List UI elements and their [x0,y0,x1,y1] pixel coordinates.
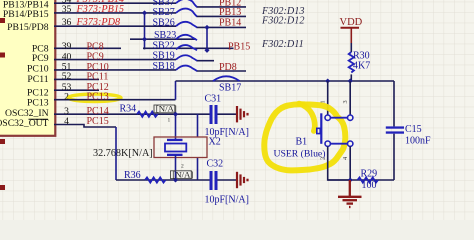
button contact bar [320,113,322,144]
wire R36 row / C32 [116,179,210,181]
parameter box [N/A] for R34 [154,105,175,113]
svg-text:PB14: PB14 [219,18,241,29]
solder bridge SB22 arc [176,45,197,50]
svg-text:C32: C32 [207,158,224,169]
vertical wire PB14 row down to PB15 row [206,27,208,50]
yellow highlight ellipse around PC13 [68,94,121,101]
ground (rotated) at C32 [237,172,248,188]
wire pin40 row PC9 / SB19 [54,59,176,61]
svg-text:USER (Blue): USER (Blue) [274,148,326,159]
bottom rail wire [328,179,394,181]
svg-text:OSC32_OUT: OSC32_OUT [0,118,49,129]
solder bridge SB23 arc [176,35,197,40]
wire pin2 row PC13 [54,99,176,101]
solder bridge SB18 arc [176,66,197,71]
vertical wire PC15 down to R36 row [115,127,117,180]
svg-text:R36: R36 [124,170,141,181]
capacitor C15 stem top [393,81,395,126]
svg-text:F373:PB15: F373:PB15 [76,4,125,15]
svg-text:35: 35 [62,4,72,15]
crystal X2 body [165,144,186,152]
wire row A right (SB top, PB12) [197,6,247,8]
wire pin34 row (left) [54,2,176,4]
crystal case lead top [197,114,199,137]
junction button right leg / R30 [348,78,353,83]
yellow highlight blob around B1 [264,104,345,170]
wire row B right (SB27, PB13) [197,15,247,17]
svg-text:4: 4 [64,116,69,127]
wire pin39 row PC8 [54,47,121,49]
svg-text:F373:PD8: F373:PD8 [76,17,121,28]
button bottom bridge wire [330,143,347,145]
yellow marker overlap tail [299,104,315,132]
svg-text:B1: B1 [296,136,308,147]
wire pin36 row C (straight to SB26, PB14) [54,25,176,27]
capacitor C31 plates [210,105,213,124]
svg-text:SB26: SB26 [153,18,175,29]
button pin circle bottom-right [348,141,353,146]
crystal X2 top lead [175,114,177,139]
svg-text:PC13: PC13 [27,98,49,109]
svg-text:4K7: 4K7 [353,61,370,72]
svg-text:52: 52 [62,71,72,82]
svg-text:PB15: PB15 [228,41,250,52]
capacitor C15 stem bottom [393,134,395,180]
svg-text:32.768K[N/A]: 32.768K[N/A] [93,148,153,159]
wire VDD to R30 [350,43,352,52]
wire button right leg bottom [349,146,351,180]
svg-text:PB14/PB15: PB14/PB15 [3,9,49,20]
vertical wire PC13 up to SB17 row [175,81,177,100]
svg-text:PC9: PC9 [32,53,49,64]
svg-text:SB27: SB27 [153,7,175,18]
wire pin3 row PC14 / R34 / C31 [54,113,210,115]
crystal X2 bottom plate [167,154,183,156]
svg-text:1: 1 [168,118,171,124]
wire pin35 row (left) [54,12,176,14]
solder bridge SB17 arc [213,76,240,81]
wire R30 to PC13 net [350,74,352,81]
solder bridge SB26 arc [176,22,197,28]
resistor R29 body [358,177,378,182]
resistor R34 body [137,112,158,117]
svg-text:36: 36 [62,17,72,28]
button pin circle top-left [325,115,330,120]
wire SB17 row (PC13 net to button) [176,80,395,82]
wire pin52 row PC11 [54,78,99,80]
junction SB23 row / bus vertical [142,37,147,42]
wire button left leg bottom [328,146,351,180]
svg-text:1: 1 [320,100,327,103]
connector port panel (yellow sheet symbol) [0,0,55,136]
svg-text:PC11: PC11 [87,71,109,82]
svg-text:R34: R34 [120,104,137,115]
wire pin53 row PC12 [54,89,99,91]
wire SB22 row / PB15 [143,47,234,49]
crystal X2 top plate [167,139,183,141]
wire button right leg top [349,81,351,115]
ground symbol [338,180,362,207]
overbar on OUT [29,118,49,120]
svg-text:PB15/PD8: PB15/PD8 [7,22,49,33]
wire button left leg top [327,81,329,115]
junction PB15 row / PB14 drop [204,48,209,53]
button top bridge wire [330,117,347,119]
crystal X2 bottom lead [175,155,177,180]
button pin circle top-right [348,115,353,120]
svg-text:PB13: PB13 [219,7,241,18]
ground (rotated) at C31 [237,106,248,122]
svg-text:2: 2 [64,91,69,102]
vertical bus wire SB27 row down to PC9 row [144,13,146,50]
junction row B / bus vertical [142,10,147,15]
svg-text:10pF[N/A]: 10pF[N/A] [205,194,249,205]
svg-text:F302:D11: F302:D11 [261,39,304,50]
junction R36 row/crystal lead [173,177,178,182]
button pin circle bottom-left [325,141,330,146]
svg-text:PC15: PC15 [87,116,109,127]
svg-text:PD8: PD8 [219,62,237,73]
solder bridge SB37 arc [176,0,197,7]
svg-text:100: 100 [362,180,377,191]
wire SB23 row [130,38,196,40]
junction button left leg / SB17 wire [325,78,330,83]
svg-text:VDD: VDD [340,17,363,28]
solder bridge SB19 arc [176,55,197,60]
svg-text:PC13: PC13 [87,92,109,103]
svg-text:3: 3 [342,100,349,103]
svg-text:C15: C15 [405,124,422,135]
resistor R36 body [145,177,166,182]
button actuator [317,128,320,133]
svg-text:C31: C31 [205,93,222,104]
svg-text:R29: R29 [361,169,378,180]
crystal case lead bottom [197,158,199,181]
svg-text:100nF: 100nF [405,135,431,146]
resistor R30 body [349,52,354,73]
crystal X2 outline box [154,137,207,158]
junction PC14/crystal lead [173,112,178,117]
parameter box [N/A] for R36 [171,171,192,179]
capacitor C15 plates [386,126,404,128]
wire pin4 row PC15 [54,125,116,128]
svg-text:SB18: SB18 [153,61,175,72]
svg-text:X2: X2 [209,136,221,147]
svg-text:PC11: PC11 [27,74,48,85]
capacitor C32 plates [210,171,213,190]
svg-text:SB23: SB23 [154,30,176,41]
svg-text:F302:D12: F302:D12 [261,16,304,27]
port stub marks on sheet edge [0,18,5,23]
solder bridge SB27 arc [176,9,197,17]
svg-text:SB17: SB17 [219,83,241,94]
svg-text:[N/A]: [N/A] [156,104,177,114]
wire pin51 row PC10 / SB18 / PD8 [54,69,176,71]
junction PB14 row / drop to PB15 [204,25,209,30]
junction rail/ground [348,177,353,182]
